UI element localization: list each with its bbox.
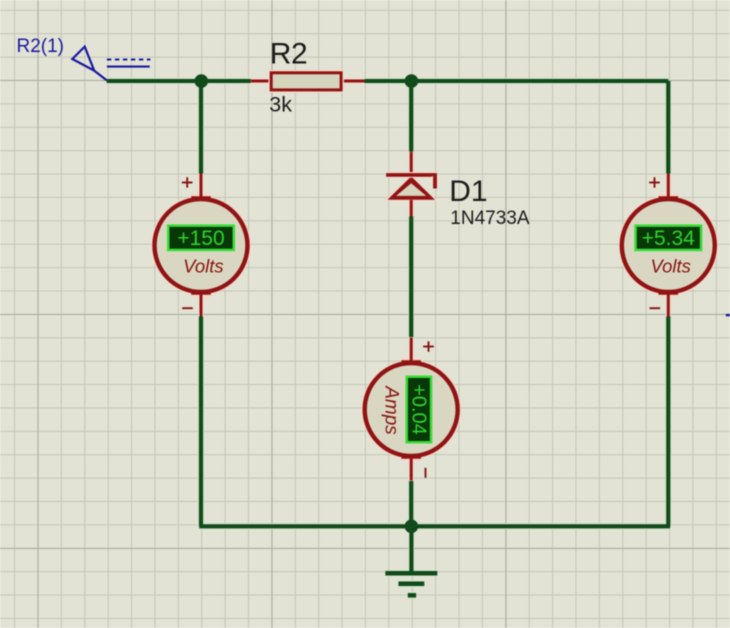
ground symbol bar 1 xyxy=(385,571,437,576)
ammeter display xyxy=(407,377,431,443)
right voltmeter minus polarity mark xyxy=(650,307,661,309)
diode D1 zener hook xyxy=(432,176,438,189)
wire right vertical to voltmeter top xyxy=(666,81,670,174)
ammeter top pin xyxy=(409,338,414,360)
left voltmeter minus polarity mark xyxy=(182,307,193,309)
right voltmeter body circle xyxy=(622,199,715,292)
wire middle vertical to diode D1 xyxy=(409,81,413,152)
svg-text:+0.04: +0.04 xyxy=(407,384,429,435)
svg-text:+150: +150 xyxy=(177,227,224,250)
svg-text:R2(1): R2(1) xyxy=(17,36,65,57)
wire from resistor R2 to right corner xyxy=(365,79,669,83)
probe R2(1) solid mark xyxy=(107,66,150,68)
right voltmeter top terminal bar xyxy=(659,193,679,198)
svg-text:D1: D1 xyxy=(449,175,487,208)
left voltmeter plus polarity mark xyxy=(182,182,193,184)
left voltmeter top pin xyxy=(198,174,203,196)
svg-text:Volts: Volts xyxy=(650,256,690,277)
ground symbol bar 3 xyxy=(408,593,416,598)
left voltmeter top terminal bar xyxy=(191,193,211,198)
left voltmeter display xyxy=(168,226,234,250)
clipped probe mark at right edge xyxy=(726,314,730,316)
resistor R2 body xyxy=(271,73,341,90)
junction node at left voltmeter tap xyxy=(195,74,209,88)
diode D1 cathode bar (zener) xyxy=(386,172,437,178)
svg-text:Volts: Volts xyxy=(183,256,223,277)
left voltmeter bottom pin xyxy=(198,296,203,317)
wire right voltmeter bottom to ground rail xyxy=(666,317,670,527)
svg-text:Amps: Amps xyxy=(380,385,401,435)
ammeter bottom pin xyxy=(409,460,414,481)
wire left vertical to voltmeter top xyxy=(199,81,203,174)
svg-text:R2: R2 xyxy=(270,38,307,71)
diode D1 bottom pin xyxy=(409,200,414,217)
probe R2(1) cone xyxy=(72,47,94,71)
wire halos underlay xyxy=(107,81,671,595)
ammeter minus polarity mark xyxy=(425,468,427,478)
probe R2(1) tail xyxy=(94,71,106,81)
ground symbol bar 2 xyxy=(398,582,424,587)
right voltmeter top pin xyxy=(666,174,671,196)
wire left voltmeter bottom to ground rail xyxy=(199,317,203,527)
junction node at ground xyxy=(405,520,419,534)
wire bottom ground rail xyxy=(199,524,670,528)
probe R2(1) dashed mark xyxy=(107,58,150,60)
right voltmeter bottom terminal bar xyxy=(659,292,679,297)
svg-text:1N4733A: 1N4733A xyxy=(450,208,530,229)
right voltmeter bottom pin xyxy=(666,296,671,317)
wire diode D1 to ammeter xyxy=(409,217,413,338)
ammeter plus polarity mark xyxy=(423,346,434,348)
svg-text:3k: 3k xyxy=(269,92,292,116)
ammeter body circle xyxy=(365,363,458,456)
svg-text:+5.34: +5.34 xyxy=(642,227,695,250)
ammeter top terminal bar xyxy=(401,358,421,363)
right voltmeter plus polarity mark xyxy=(649,182,660,184)
junction node at diode top xyxy=(405,74,419,88)
ground stem wire xyxy=(409,526,413,571)
right voltmeter display xyxy=(636,226,702,250)
left voltmeter body circle xyxy=(155,199,248,292)
diode D1 anode triangle xyxy=(386,176,437,201)
ammeter bottom terminal bar xyxy=(401,456,421,461)
diode D1 top pin xyxy=(409,152,414,177)
wire top-left from probe to resistor R2 xyxy=(107,79,251,83)
wire ammeter bottom to ground rail xyxy=(409,481,413,526)
resistor R2 pins xyxy=(251,78,270,83)
left voltmeter bottom terminal bar xyxy=(191,292,211,297)
